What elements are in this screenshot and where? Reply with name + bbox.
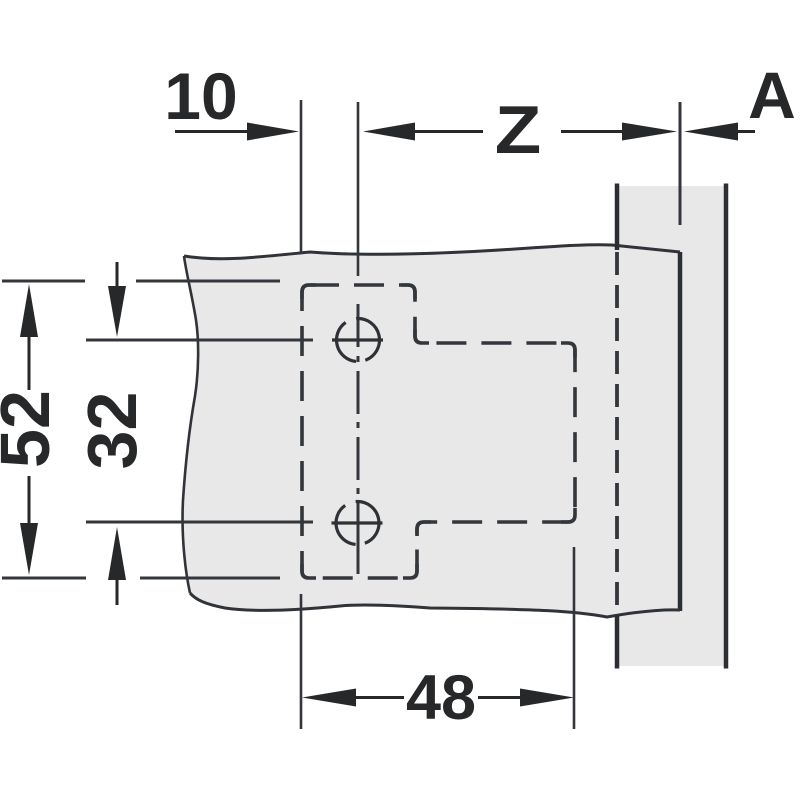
svg-text:A: A [748, 58, 796, 132]
svg-text:Z: Z [495, 93, 542, 168]
svg-text:52: 52 [0, 390, 64, 468]
svg-text:32: 32 [73, 392, 151, 470]
svg-text:10: 10 [164, 59, 237, 133]
svg-text:48: 48 [406, 663, 476, 733]
